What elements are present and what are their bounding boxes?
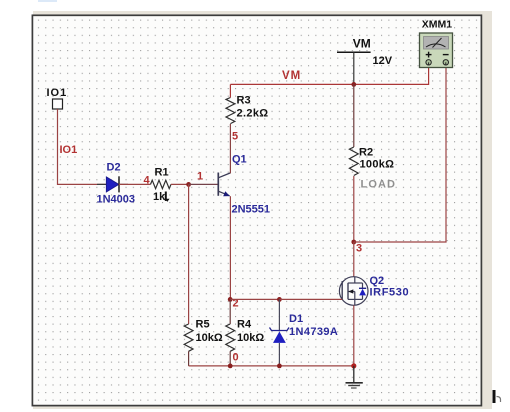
MOSFET Q2 bbox=[339, 277, 368, 306]
svg-text:IRF530: IRF530 bbox=[370, 287, 410, 299]
svg-text:Q1: Q1 bbox=[232, 154, 247, 166]
wire node 2 to R4 bbox=[229, 299, 231, 324]
junction node 3 bbox=[351, 240, 356, 245]
junction node 1 bbox=[186, 182, 191, 187]
wire node 3 to Q2 drain bbox=[353, 242, 355, 277]
svg-text:Q2: Q2 bbox=[370, 275, 385, 287]
svg-text:VM: VM bbox=[353, 37, 371, 51]
resistor R5 bbox=[184, 324, 193, 351]
svg-text:12V: 12V bbox=[373, 55, 393, 67]
svg-text:0: 0 bbox=[233, 352, 239, 364]
svg-text:2.2kΩ: 2.2kΩ bbox=[237, 108, 269, 120]
wire VM to R2 bbox=[353, 84, 355, 147]
ground bbox=[346, 366, 363, 388]
svg-text:IO1: IO1 bbox=[47, 87, 68, 99]
wire R4 to ground rail bbox=[229, 351, 231, 366]
wire R1 to node 1 bbox=[171, 183, 189, 185]
wire R5 to ground rail bbox=[188, 351, 190, 366]
wire VM rail bbox=[230, 65, 428, 84]
svg-text:10kΩ: 10kΩ bbox=[196, 332, 223, 344]
connector IO1 bbox=[47, 87, 68, 109]
resistor R1 bbox=[151, 180, 171, 188]
wire node 3 to XMM1 negative terminal bbox=[354, 65, 446, 242]
svg-text:LOAD: LOAD bbox=[361, 179, 397, 191]
svg-text:R5: R5 bbox=[196, 319, 210, 331]
svg-text:IO1: IO1 bbox=[60, 144, 78, 156]
ground rail wire bbox=[189, 365, 354, 367]
svg-text:5: 5 bbox=[232, 131, 238, 143]
wire Q1 collector to R3 bbox=[229, 124, 231, 173]
mouse cursor bottom right bbox=[493, 390, 501, 403]
wire node 1 to R5 bbox=[188, 184, 190, 324]
resistor R2 bbox=[349, 147, 358, 176]
junction node 0 at R4 bbox=[228, 364, 233, 369]
wire R2 to node 3 bbox=[353, 176, 355, 242]
svg-text:VM: VM bbox=[282, 70, 301, 82]
svg-text:10kΩ: 10kΩ bbox=[237, 332, 264, 344]
svg-text:R2: R2 bbox=[359, 147, 373, 159]
multimeter XMM1 bbox=[420, 19, 453, 68]
junction node 2 bbox=[228, 297, 233, 302]
svg-text:100kΩ: 100kΩ bbox=[360, 159, 395, 171]
junction D1 top bbox=[277, 297, 282, 302]
wire D2 to R1 bbox=[119, 183, 151, 185]
junction ground node bbox=[351, 363, 356, 368]
svg-text:R4: R4 bbox=[237, 319, 252, 331]
junction VM node bbox=[351, 82, 356, 87]
resistor R4 bbox=[226, 324, 235, 351]
wire IO1 to D2 bbox=[58, 109, 107, 184]
junction node 0 at D1 bbox=[277, 364, 282, 369]
svg-text:1N4003: 1N4003 bbox=[97, 194, 136, 206]
svg-text:R1: R1 bbox=[155, 167, 169, 179]
svg-text:1N4739A: 1N4739A bbox=[289, 326, 338, 338]
wire R3 top to VM rail bbox=[229, 84, 231, 97]
resistor R3 bbox=[226, 98, 235, 124]
wire node 2 to D1 bbox=[230, 298, 279, 300]
svg-text:D2: D2 bbox=[107, 162, 121, 174]
wire Q1 emitter to node 2 bbox=[229, 196, 231, 299]
svg-text:R3: R3 bbox=[237, 95, 251, 107]
svg-text:3: 3 bbox=[356, 243, 362, 255]
svg-text:4: 4 bbox=[144, 175, 151, 187]
svg-text:XMM1: XMM1 bbox=[422, 19, 452, 31]
svg-text:1: 1 bbox=[197, 171, 203, 183]
svg-text:1k: 1k bbox=[153, 191, 166, 203]
wire Q2 source to ground rail bbox=[353, 305, 355, 366]
svg-text:D1: D1 bbox=[289, 313, 303, 325]
resistor R1 value label 1k bbox=[153, 191, 170, 203]
diode D2 bbox=[97, 176, 128, 192]
svg-text:2N5551: 2N5551 bbox=[232, 204, 271, 216]
transistor Q1 bbox=[218, 173, 230, 197]
wire node 2 to Q2 gate bbox=[279, 298, 342, 300]
wire node 1 to Q1 base bbox=[189, 183, 219, 185]
zener diode D1 bbox=[270, 299, 290, 366]
power source VM 12V bbox=[337, 37, 393, 85]
